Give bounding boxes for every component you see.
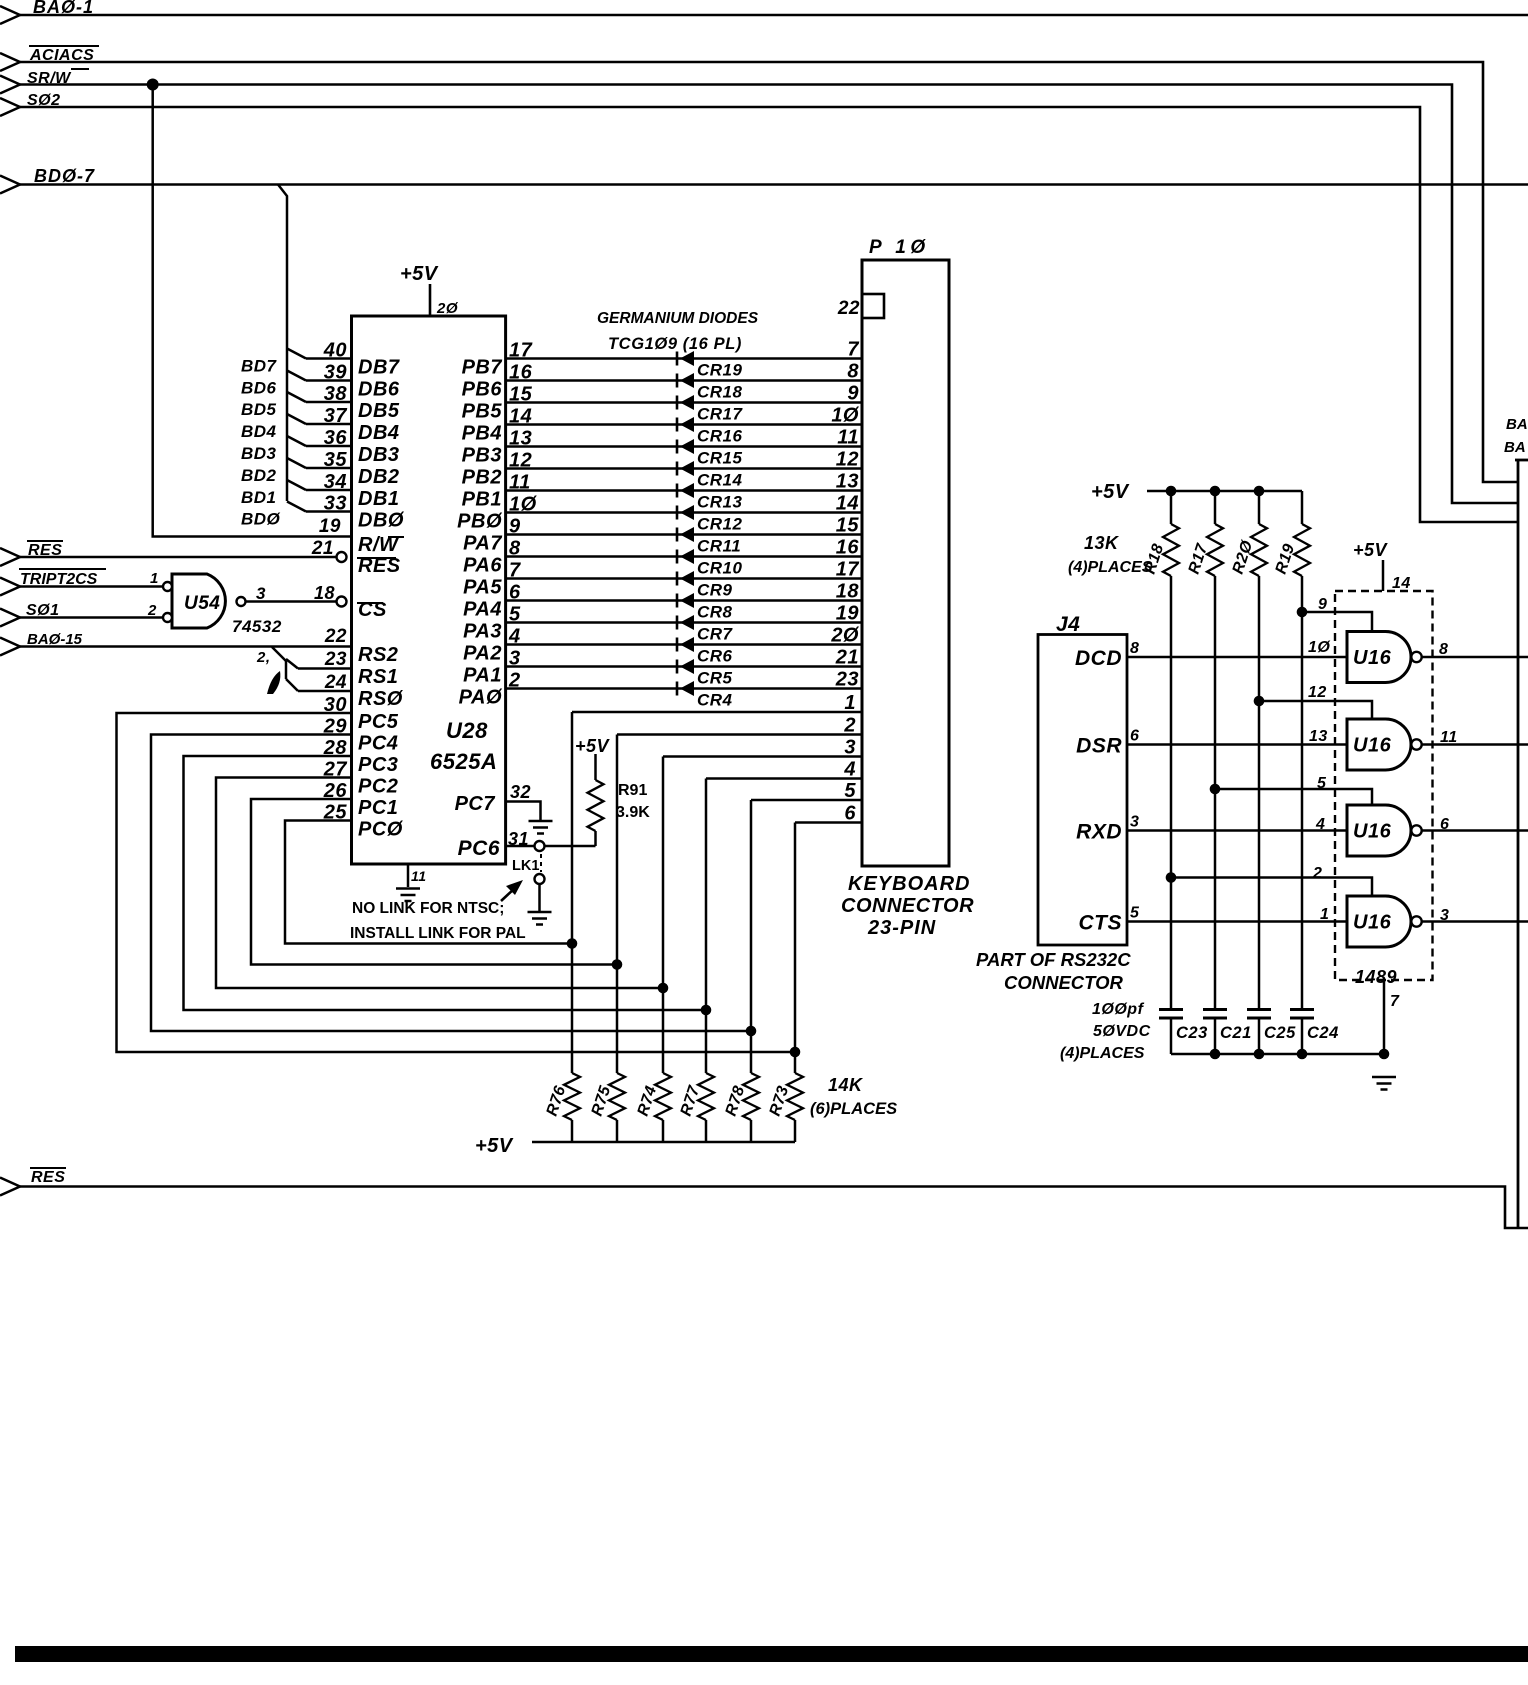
svg-text:+5V: +5V [1091,481,1130,503]
diode CR11 [676,528,679,542]
junction C25 rail [1254,1049,1265,1060]
svg-text:BD2: BD2 [241,466,277,485]
svg-text:U16: U16 [1353,821,1392,843]
wire column R77 vertical [705,779,708,1074]
svg-text:PC1: PC1 [358,797,398,819]
wire PB6 to P10 pin 8 [506,379,862,382]
svg-text:DB2: DB2 [358,466,400,488]
svg-text:PBØ: PBØ [457,511,503,533]
svg-text:BD5: BD5 [241,400,277,419]
svg-text:DB3: DB3 [358,444,400,466]
wire PB3 to P10 pin 11 [506,445,862,448]
wire column R18 vertical [1170,576,1173,1009]
wire PA1 to P10 pin 21 [506,665,862,668]
svg-text:PB6: PB6 [462,379,503,401]
diode CR5 [676,660,679,674]
wire RES to U28 pin 21 [20,556,337,559]
svg-text:3: 3 [1440,907,1449,924]
svg-text:2Ø: 2Ø [436,300,459,317]
wire DB4 stub [287,414,306,424]
svg-text:11: 11 [1440,729,1458,746]
U54 input bubble pin 1 [163,582,172,591]
wire PC5 to column [117,713,796,1052]
svg-text:19: 19 [836,603,860,625]
svg-text:PA7: PA7 [463,533,502,555]
right edge connector body [1517,460,1520,1228]
wire R/W branch to U28 pin 19 [153,85,352,537]
wire column R76 vertical [571,712,574,1073]
junction PC2 node [658,983,669,994]
wire PC6 to link LK1 [506,845,535,848]
svg-text:1: 1 [150,570,159,587]
connector P10 body [862,260,949,866]
wire TRIPT2CS to U54 pin 1 [20,585,163,588]
wire DCD to U16 input [1127,656,1347,659]
resistor R91 [594,754,597,780]
svg-text:CR12: CR12 [697,515,743,534]
bus entry BD0-7 [0,176,20,194]
svg-text:8: 8 [1439,641,1448,658]
svg-text:TCG1Ø9 (16 PL): TCG1Ø9 (16 PL) [608,335,742,353]
svg-text:PC7: PC7 [455,793,496,815]
wire column R20 vertical [1258,576,1261,1009]
svg-text:BD4: BD4 [241,422,277,441]
svg-text:PA1: PA1 [463,665,502,687]
junction R18 +5V [1166,486,1177,497]
svg-text:15: 15 [836,515,860,537]
wire column R75 vertical [616,735,619,1074]
wire response control pin 5 [1215,789,1372,805]
wire column R73 vertical [794,823,797,1074]
svg-text:NO LINK FOR NTSC;: NO LINK FOR NTSC; [352,900,504,917]
svg-text:1Ø: 1Ø [831,405,860,427]
svg-text:9: 9 [1318,596,1327,613]
wire P10 pin 3 to column [663,755,862,758]
wire BD0-7 [20,183,1528,186]
U54 input bubble pin 2 [163,613,172,622]
U28 CS bubble pin 18 [337,597,347,607]
svg-text:CR6: CR6 [697,647,733,666]
svg-text:74532: 74532 [232,617,282,636]
svg-text:R91: R91 [618,782,647,799]
bus entry RES (bottom) [0,1178,20,1196]
svg-text:PB2: PB2 [462,467,502,489]
svg-text:13: 13 [836,471,859,493]
gate U16 unit b output bubble [1411,739,1421,749]
svg-text:RS1: RS1 [358,666,398,688]
svg-text:PB3: PB3 [462,445,502,467]
svg-text:DBØ: DBØ [358,510,405,532]
svg-text:CR19: CR19 [697,361,743,380]
svg-text:U16: U16 [1353,647,1392,669]
wire BA0-15 to U28 pin 22 RS2 [20,645,352,648]
svg-text:11: 11 [837,427,859,449]
svg-text:PC5: PC5 [358,711,399,733]
svg-text:PB4: PB4 [462,423,502,445]
svg-text:CTS: CTS [1079,912,1123,935]
gate U16 unit c body [1347,805,1411,856]
wire PC3 to column [184,756,707,1010]
svg-text:PA3: PA3 [463,621,502,643]
wire DB0 stub [287,502,306,512]
svg-text:C24: C24 [1307,1024,1339,1042]
wire PC2 to column [216,778,663,989]
svg-text:33: 33 [324,493,347,515]
wire PB5 to P10 pin 9 [506,401,862,404]
wire CTS to U16 input [1127,920,1347,923]
ground PC7 [529,820,553,823]
wire U16 output pin 11 [1422,743,1528,746]
svg-text:19: 19 [319,516,341,537]
link LK1 bottom terminal [535,874,545,884]
svg-text:5ØVDC: 5ØVDC [1093,1023,1151,1040]
svg-text:PB7: PB7 [462,357,503,379]
or-gate U54 74S32 body [172,574,225,628]
svg-text:PC6: PC6 [458,837,500,860]
svg-text:RXD: RXD [1076,821,1122,844]
gate U16 unit c output bubble [1411,825,1421,835]
diode CR9 [676,572,679,586]
capacitor C24 [1290,1008,1314,1011]
svg-text:5: 5 [1130,905,1140,922]
svg-text:PA4: PA4 [463,599,502,621]
svg-text:12: 12 [1308,684,1327,701]
gate U16 unit b body [1347,719,1411,770]
wire column R74 vertical [662,757,665,1074]
svg-text:CR17: CR17 [697,405,744,424]
gate U16 unit a output bubble [1411,652,1421,662]
junction PC0 node [567,938,578,949]
diode CR17 [676,396,679,410]
gate U16 unit a body [1347,632,1411,683]
wire PC7 to ground [506,802,541,821]
svg-text:DB7: DB7 [358,357,400,379]
svg-text:22: 22 [324,626,347,647]
wire S02 [20,107,1518,522]
diode CR12 [676,506,679,520]
junction PC4 node [746,1026,757,1037]
svg-text:3: 3 [1130,814,1139,831]
svg-text:J4: J4 [1056,613,1080,636]
svg-text:C21: C21 [1220,1024,1252,1042]
svg-text:U54: U54 [184,593,220,614]
svg-text:(4)PLACES: (4)PLACES [1060,1045,1145,1062]
svg-text:PA2: PA2 [463,643,502,665]
resistor R75 [609,1073,625,1120]
junction response control R20 [1254,696,1265,707]
junction C24 rail [1297,1049,1308,1060]
wire PA3 to P10 pin 19 [506,621,862,624]
wire PC0 to column [285,821,572,944]
svg-text:2,: 2, [256,649,271,666]
svg-text:PC4: PC4 [358,733,398,755]
svg-text:8: 8 [847,361,859,383]
wire U16 pin 7 to ground rail [1383,980,1386,1054]
wire DB7 stub [287,349,306,359]
svg-text:+5V: +5V [400,263,439,285]
svg-text:1: 1 [844,692,856,714]
wire RXD to U16 input [1127,829,1347,832]
wire PA5 to P10 pin 17 [506,577,862,580]
wire PA0 to P10 pin 23 [506,687,862,690]
svg-text:CONNECTOR: CONNECTOR [1004,972,1124,993]
bus entry SR/W [0,76,20,94]
svg-text:DB5: DB5 [358,400,400,422]
wire LK1 to ground [538,884,541,911]
U54 output bubble [237,597,246,606]
svg-text:DB6: DB6 [358,379,400,401]
diode CR16 [676,418,679,432]
svg-text:32: 32 [510,782,531,802]
svg-text:23-PIN: 23-PIN [867,917,936,939]
svg-text:PC2: PC2 [358,776,398,798]
wire response control pin 12 [1259,701,1372,719]
svg-text:GERMANIUM DIODES: GERMANIUM DIODES [597,310,759,327]
bus entry TRIPT2CS [0,578,20,596]
junction PC3 node [701,1005,712,1016]
wire DB2 stub [287,458,306,468]
svg-text:U16: U16 [1353,912,1392,934]
resistor R78 [743,1073,759,1120]
svg-text:1489: 1489 [1355,967,1397,987]
wire PC1 to column [251,799,617,965]
diode CR13 [676,484,679,498]
svg-text:39: 39 [324,362,348,384]
svg-text:13: 13 [1309,728,1328,745]
svg-text:CR10: CR10 [697,559,743,578]
wire U16 output pin 6 [1422,829,1528,832]
svg-text:RES: RES [31,1169,65,1186]
wire P10 pin 6 to column [795,821,862,824]
svg-text:RS2: RS2 [358,644,398,666]
wire PA6 to P10 pin 16 [506,555,862,558]
svg-text:1Ø: 1Ø [1308,639,1330,656]
svg-text:18: 18 [836,581,860,603]
svg-text:DSR: DSR [1076,735,1122,758]
gate U16 unit d body [1347,896,1411,947]
svg-text:18: 18 [314,583,335,603]
wire PA2 to P10 pin 20 [506,643,862,646]
svg-text:PA5: PA5 [463,577,502,599]
wire PB1 to P10 pin 13 [506,489,862,492]
wire RS1 RS0 peel-off [272,647,286,661]
svg-text:(4)PLACES: (4)PLACES [1068,559,1153,576]
svg-text:14K: 14K [828,1075,864,1095]
svg-text:BA: BA [1504,439,1526,456]
svg-text:14: 14 [1392,575,1411,592]
wire column R78 vertical [750,800,753,1073]
wire U16 output pin 3 [1422,920,1528,923]
svg-text:CR11: CR11 [697,537,741,556]
svg-text:22: 22 [837,298,860,319]
svg-text:CR9: CR9 [697,581,733,600]
wire DB6 stub [287,371,306,381]
wire RES bottom to right connector [20,1187,1528,1229]
svg-text:5: 5 [844,780,856,802]
arrow to LK1 [501,888,515,901]
svg-text:7: 7 [1390,993,1400,1010]
junction R20 +5V [1254,486,1265,497]
svg-text:CONNECTOR: CONNECTOR [841,895,974,917]
ground symbol rail [1372,1076,1396,1079]
svg-text:36: 36 [324,427,348,449]
wire PC6 net to R91 [545,845,596,848]
bus entry BA0-1 [0,6,20,24]
svg-text:BDØ: BDØ [241,510,281,529]
wire DB1 stub [287,480,306,490]
resistor R73 [787,1073,803,1120]
wire PB0 to P10 pin 14 [506,511,862,514]
svg-text:DB1: DB1 [358,488,400,510]
svg-text:RSØ: RSØ [358,688,404,710]
svg-text:U16: U16 [1353,735,1392,757]
svg-text:PA6: PA6 [463,555,502,577]
svg-text:4: 4 [1315,816,1325,833]
svg-text:PB1: PB1 [462,489,502,511]
wire ACIACS [20,62,1518,482]
resistor R18 [1170,491,1173,524]
svg-text:2: 2 [1312,865,1322,882]
svg-text:CR5: CR5 [697,669,733,688]
svg-text:2: 2 [843,715,856,737]
svg-text:PC3: PC3 [358,754,398,776]
link LK1 dashed gap [540,854,542,872]
junction PC1 node [612,959,623,970]
svg-text:11: 11 [411,868,427,884]
wire U54 output to U28 CS pin 18 [246,600,337,603]
svg-text:40: 40 [323,340,347,362]
diode CR15 [676,440,679,454]
svg-text:2: 2 [147,602,157,619]
wire PB4 to P10 pin 10 [506,423,862,426]
svg-text:7: 7 [847,339,859,361]
wire P10 pin 2 to column [617,733,862,736]
resistor R76 [564,1073,580,1120]
svg-text:3: 3 [256,584,266,603]
junction C21 rail [1210,1049,1221,1060]
resistor R20 [1258,491,1261,524]
svg-text:9: 9 [847,383,859,405]
svg-text:3.9K: 3.9K [616,804,650,821]
svg-text:6: 6 [1130,728,1139,745]
svg-text:CR4: CR4 [697,691,733,710]
svg-text:+5V: +5V [1353,540,1389,560]
svg-text:PART OF RS232C: PART OF RS232C [976,949,1131,970]
wire BD0-7 vertical branch [278,185,287,502]
wire PA7 to P10 pin 15 [506,533,862,536]
svg-text:P 1Ø: P 1Ø [869,237,930,258]
junction R17 +5V [1210,486,1221,497]
svg-text:8: 8 [1130,640,1139,657]
svg-text:34: 34 [324,471,347,493]
wire BA0-1 [20,14,1528,17]
junction response control R18 [1166,872,1177,883]
wire response control pin 2 [1171,878,1372,897]
junction PC5 node [790,1047,801,1058]
wire PA4 to P10 pin 18 [506,599,862,602]
wire P10 pin 1 to column [572,711,862,714]
svg-text:1: 1 [1320,906,1329,923]
svg-text:KEYBOARD: KEYBOARD [848,873,970,895]
wire DB3 stub [287,436,306,446]
svg-text:CR15: CR15 [697,449,743,468]
wire P10 pin 5 to column [751,799,862,802]
link LK1 top terminal [535,841,545,851]
diode CR6 [676,638,679,652]
wire U16 output pin 8 [1422,656,1528,659]
svg-text:21: 21 [311,538,334,559]
wire P10 pin 4 to column [706,777,862,780]
junction response control R17 [1210,784,1221,795]
wire column R17 vertical [1214,576,1217,1009]
svg-text:5: 5 [1317,775,1327,792]
svg-text:6525A: 6525A [430,749,497,774]
bus arrow mark [267,671,280,694]
svg-text:+5V: +5V [475,1135,514,1157]
bus entry BA0-15 [0,638,20,656]
svg-text:2Ø: 2Ø [830,625,860,647]
wire DSR to U16 input [1127,743,1347,746]
diode CR4 [676,682,679,696]
ground rail capacitors [1171,1053,1384,1056]
ground LK1 [528,911,552,914]
wire PB2 to P10 pin 12 [506,467,862,470]
svg-text:6: 6 [1440,816,1449,833]
svg-text:CR13: CR13 [697,493,743,512]
svg-text:CR18: CR18 [697,383,743,402]
wire DB5 stub [287,392,306,402]
svg-text:17: 17 [836,559,860,581]
junction 1489 pin7 rail [1379,1049,1390,1060]
svg-text:3: 3 [844,737,856,759]
svg-text:BD6: BD6 [241,379,277,398]
svg-text:PAØ: PAØ [459,687,503,709]
capacitor C25 [1247,1008,1271,1011]
svg-text:14: 14 [836,493,859,515]
connector J4 body [1038,635,1127,946]
svg-text:PCØ: PCØ [358,819,404,841]
title block bar [15,1646,1528,1662]
svg-text:CR7: CR7 [697,625,734,644]
svg-text:PB5: PB5 [462,401,503,423]
svg-text:DB4: DB4 [358,422,400,444]
P10 key notch pin 22 [862,294,884,318]
svg-text:BDØ-7: BDØ-7 [34,166,95,186]
svg-text:BD1: BD1 [241,488,277,507]
U28 pin 11 ground [407,864,410,887]
svg-text:1ØØpf: 1ØØpf [1092,1001,1145,1018]
diode CR8 [676,594,679,608]
svg-text:16: 16 [836,537,860,559]
diode CR7 [676,616,679,630]
bus entry S02 [0,98,20,116]
diode CR18 [676,374,679,388]
svg-text:BD3: BD3 [241,444,277,463]
wire PC4 to column [151,735,751,1032]
svg-text:12: 12 [836,449,859,471]
bus entry ACIACS [0,53,20,71]
svg-text:13K: 13K [1084,533,1120,553]
svg-text:CR8: CR8 [697,603,733,622]
svg-text:INSTALL LINK FOR PAL: INSTALL LINK FOR PAL [350,925,526,942]
bus entry RES (top) [0,548,20,566]
resistor R19 [1301,491,1304,524]
svg-text:U28: U28 [446,718,488,743]
svg-text:(6)PLACES: (6)PLACES [810,1100,897,1118]
wire SR/W [20,85,1518,504]
svg-text:LK1: LK1 [512,858,539,874]
junction response control R19 [1297,607,1308,618]
